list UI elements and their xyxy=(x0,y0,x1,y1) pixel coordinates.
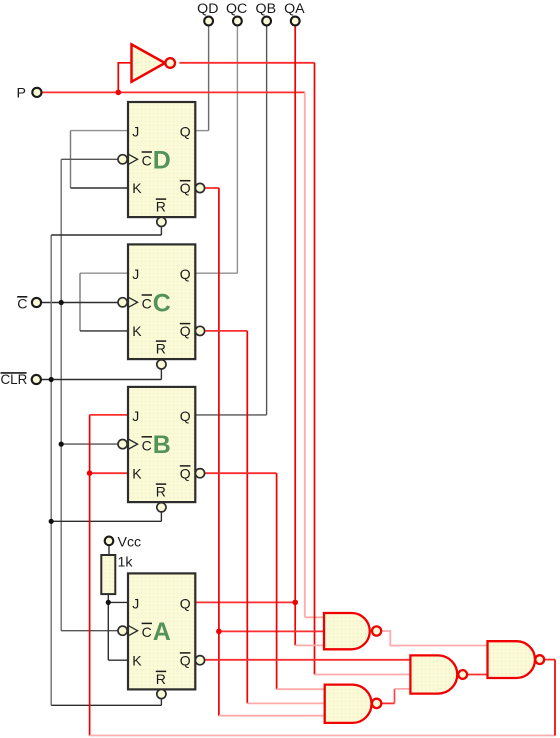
svg-text:Q: Q xyxy=(180,408,191,424)
svg-text:C: C xyxy=(142,153,152,169)
svg-text:J: J xyxy=(132,124,139,140)
svg-text:R: R xyxy=(156,484,166,500)
svg-text:K: K xyxy=(132,180,142,196)
svg-text:Q: Q xyxy=(180,652,191,668)
svg-text:Q: Q xyxy=(180,266,191,282)
svg-text:C: C xyxy=(142,296,152,312)
svg-text:Q: Q xyxy=(180,124,191,140)
svg-text:A: A xyxy=(153,618,171,646)
svg-text:C: C xyxy=(153,289,171,317)
svg-text:Vcc: Vcc xyxy=(118,535,142,551)
svg-text:K: K xyxy=(132,465,142,481)
svg-text:QA: QA xyxy=(284,1,305,17)
svg-text:CLR: CLR xyxy=(1,372,28,387)
svg-text:J: J xyxy=(132,266,139,282)
svg-text:1k: 1k xyxy=(118,555,134,571)
svg-text:R: R xyxy=(156,341,166,357)
svg-text:D: D xyxy=(153,146,171,174)
svg-text:Q: Q xyxy=(180,595,191,611)
svg-text:K: K xyxy=(132,323,142,339)
svg-text:R: R xyxy=(156,199,166,215)
svg-text:J: J xyxy=(132,408,139,424)
svg-text:P: P xyxy=(17,86,26,102)
svg-text:C: C xyxy=(142,437,152,453)
svg-text:Q: Q xyxy=(180,465,191,481)
svg-text:B: B xyxy=(153,431,171,459)
svg-text:QD: QD xyxy=(197,1,218,17)
svg-text:C: C xyxy=(17,297,27,313)
svg-text:QC: QC xyxy=(226,1,247,17)
svg-text:J: J xyxy=(132,595,139,611)
svg-text:Q: Q xyxy=(180,323,191,339)
svg-text:QB: QB xyxy=(256,1,277,17)
svg-text:R: R xyxy=(156,671,166,687)
svg-text:C: C xyxy=(142,624,152,640)
svg-text:Q: Q xyxy=(180,180,191,196)
svg-text:K: K xyxy=(132,652,142,668)
